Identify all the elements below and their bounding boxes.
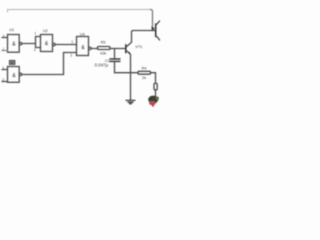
svg-text:0.047μ: 0.047μ bbox=[95, 63, 109, 68]
wire U1 output to U2 tie bar bbox=[22, 43, 36, 45]
transistor VT2 arrowhead on base wire bbox=[151, 26, 155, 30]
transistor VT1 collector diagonal bbox=[126, 42, 131, 47]
svg-text:R4: R4 bbox=[142, 67, 147, 71]
wire U3 output right and up to U4 input 2 bbox=[22, 53, 77, 75]
label U3 mark inside label box bbox=[11, 62, 14, 64]
svg-text:2: 2 bbox=[2, 47, 4, 51]
gate U2 bbox=[41, 35, 53, 52]
wire U4 output to R5 bbox=[91, 48, 97, 50]
wire rail corner down right side bbox=[150, 10, 152, 31]
svg-text:2k: 2k bbox=[142, 76, 146, 80]
logo graphic bottom right corner bbox=[148, 96, 159, 107]
svg-text:U1: U1 bbox=[9, 28, 14, 32]
ground bbox=[126, 100, 135, 103]
resistor R4 bbox=[138, 71, 151, 74]
svg-text:2: 2 bbox=[2, 78, 4, 82]
svg-text:1: 1 bbox=[3, 34, 5, 38]
transistor VT2 emitter diagonal bbox=[156, 36, 160, 41]
gate U1 bbox=[8, 35, 20, 53]
wire C1 branch down bbox=[114, 49, 116, 59]
transistor VT2 base bar at right edge bbox=[155, 24, 157, 37]
svg-text:U2: U2 bbox=[43, 29, 48, 33]
resistor vertical at right edge bbox=[154, 83, 157, 90]
transistor VT1 emitter arrowhead bbox=[128, 52, 131, 55]
resistor R5 bbox=[98, 47, 111, 50]
gate U3 bbox=[8, 67, 20, 83]
wire U2 output to U4 input 1 bbox=[55, 44, 76, 46]
svg-text:VT1: VT1 bbox=[135, 44, 143, 49]
svg-text:U4: U4 bbox=[80, 32, 85, 36]
capacitor C1 bbox=[110, 59, 120, 61]
gate U1 input stub pin2 bbox=[2, 50, 8, 52]
svg-text:R5: R5 bbox=[101, 41, 106, 45]
svg-text:1: 1 bbox=[71, 40, 73, 44]
gate U2 input tie bar bbox=[36, 37, 41, 48]
wire R4 to right edge and down bbox=[151, 73, 156, 84]
gate U3 output bubble bbox=[19, 73, 22, 76]
svg-text:2: 2 bbox=[70, 54, 72, 58]
wire VT1 collector up and right to VT2 bbox=[132, 31, 156, 43]
gate U1 input stub pin1 bbox=[2, 37, 8, 39]
gate U3 input stub pin1 bbox=[2, 69, 8, 71]
svg-text:1: 1 bbox=[2, 66, 4, 70]
wire top supply rail bbox=[8, 10, 151, 13]
svg-text:43k: 43k bbox=[100, 51, 106, 55]
wire resistor down to logo bbox=[155, 90, 157, 97]
gate U3 label box bbox=[10, 61, 15, 65]
svg-text:1: 1 bbox=[34, 31, 36, 35]
gate U3 input stub pin2 bbox=[2, 81, 8, 83]
transistor VT2 collector diagonal bbox=[156, 21, 160, 25]
svg-text:2: 2 bbox=[34, 48, 36, 52]
wire VT1 emitter down to ground bbox=[130, 55, 132, 100]
wire C1 bottom down and right to R4 bbox=[115, 62, 139, 73]
gate U4 output bubble bbox=[89, 47, 92, 50]
transistor VT1 base bar bbox=[125, 45, 127, 53]
gate U4 bbox=[77, 37, 89, 56]
gate U1 output bubble bbox=[19, 42, 22, 45]
gate U2 output bubble bbox=[53, 43, 56, 46]
wire R5 to VT1 base bbox=[110, 48, 126, 50]
transistor VT1 emitter diagonal bbox=[126, 51, 130, 54]
